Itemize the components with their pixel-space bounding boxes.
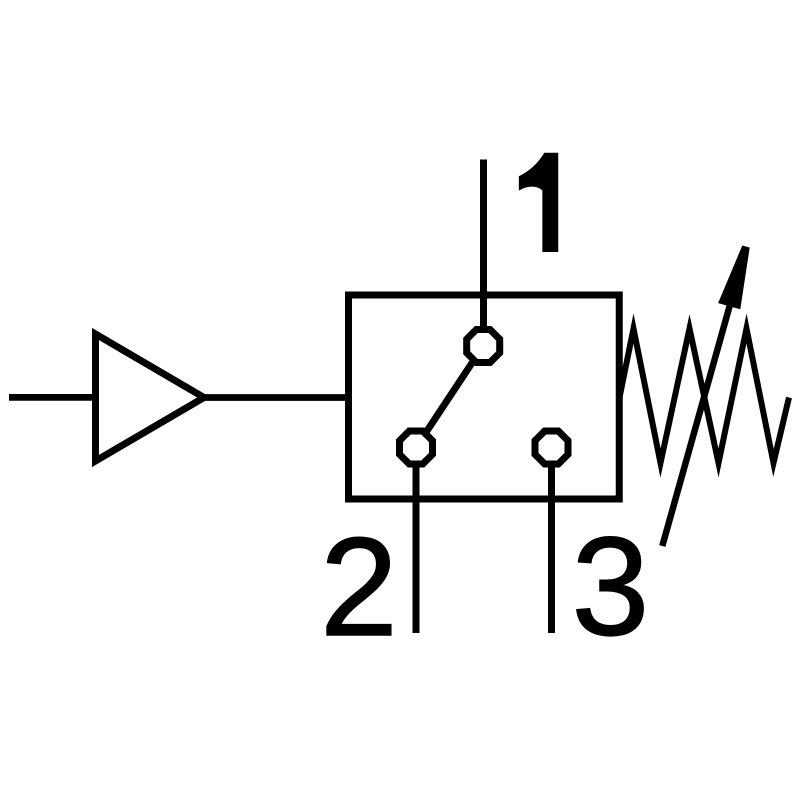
valve seat node bottom-right (port 3 octagon)	[535, 431, 568, 464]
switch diagonal link inside valve	[416, 346, 483, 448]
svg-text:3: 3	[572, 508, 650, 665]
label port 1	[519, 153, 558, 251]
valve body box	[349, 295, 620, 499]
valve seat node top (port 1 octagon)	[467, 330, 500, 363]
spring (zigzag)	[620, 329, 790, 464]
svg-text:2: 2	[320, 508, 398, 665]
adjustment arrow shaft	[662, 294, 733, 546]
wire: left inlet horizontal line	[9, 394, 98, 401]
wire: port 1 vertical line (top)	[480, 160, 487, 347]
wire: port 3 vertical line (bottom right)	[548, 448, 555, 634]
wire: triangle tip to valve body	[203, 394, 352, 401]
valve seat node bottom-left (port 2 octagon)	[400, 431, 433, 464]
adjustment arrow head	[718, 246, 750, 310]
wire: port 2 vertical line (bottom left)	[413, 448, 420, 634]
pilot actuator triangle	[96, 334, 205, 461]
